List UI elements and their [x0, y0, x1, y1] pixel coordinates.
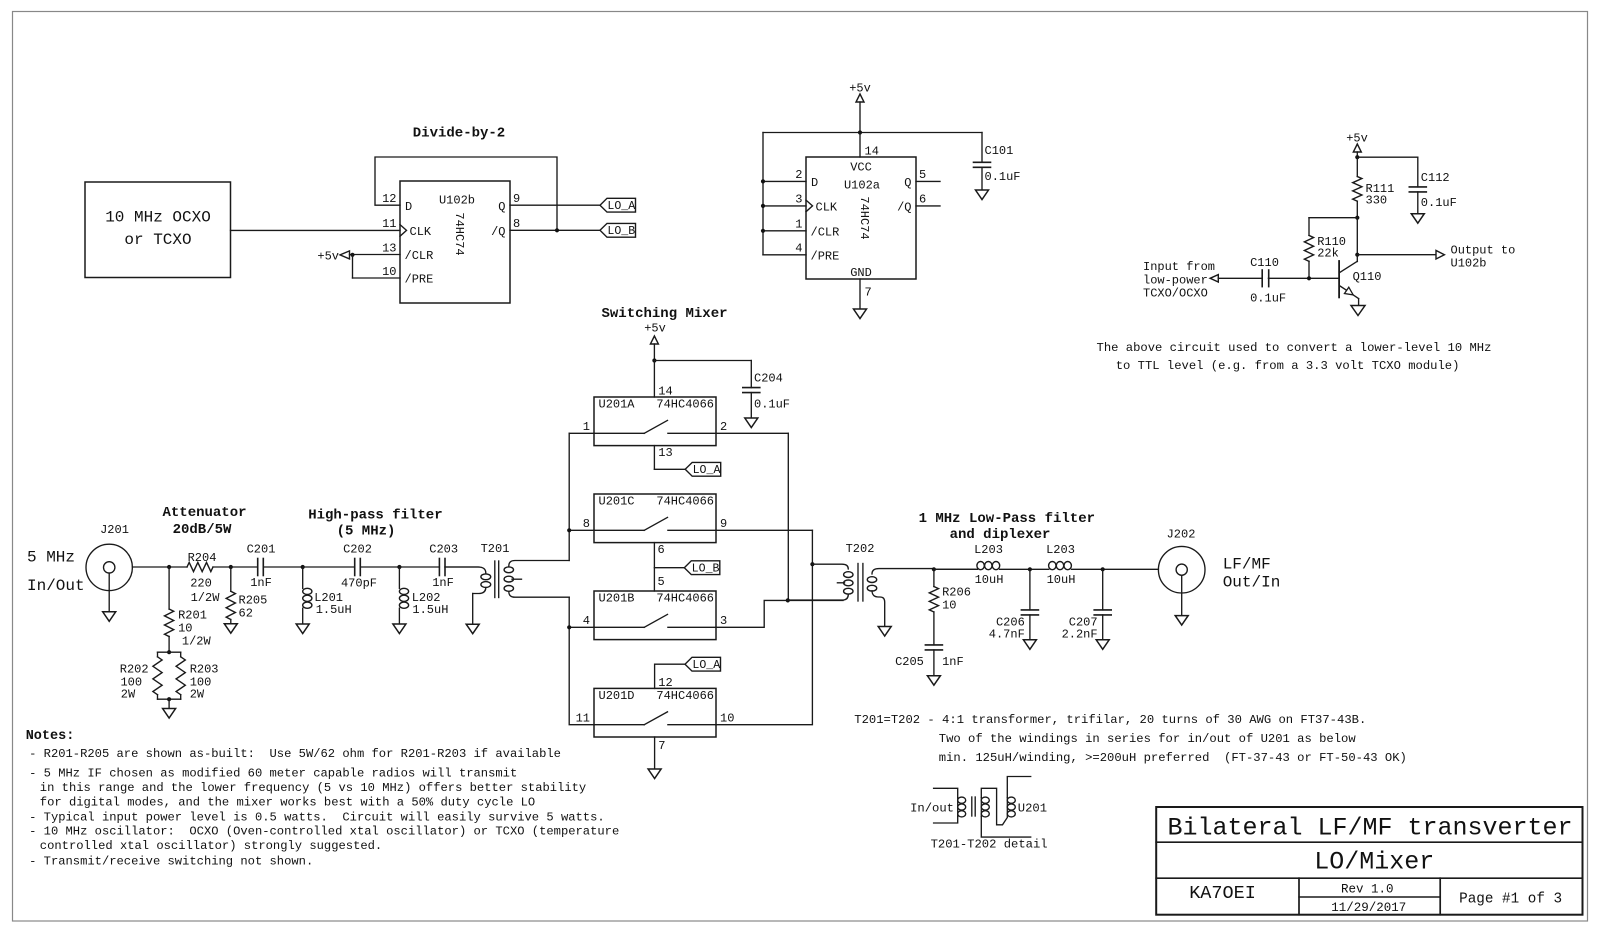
svg-text:12: 12	[658, 676, 672, 690]
svg-text:Q: Q	[498, 200, 505, 214]
svg-text:D: D	[405, 200, 412, 214]
svg-text:The above circuit used to conv: The above circuit used to convert a lowe…	[1097, 341, 1492, 355]
svg-text:J201: J201	[100, 523, 129, 537]
svg-text:+5v: +5v	[644, 322, 666, 336]
svg-text:J202: J202	[1167, 528, 1196, 542]
svg-text:L203: L203	[974, 543, 1003, 557]
svg-text:CLK: CLK	[816, 201, 838, 215]
svg-text:U102b: U102b	[1451, 257, 1487, 271]
svg-text:to TTL level (e.g. from a 3.3: to TTL level (e.g. from a 3.3 volt TCXO …	[1116, 359, 1460, 373]
svg-text:5: 5	[658, 575, 665, 589]
svg-text:10 MHz OCXO: 10 MHz OCXO	[105, 209, 211, 227]
svg-text:1nF: 1nF	[942, 655, 964, 669]
svg-text:20dB/5W: 20dB/5W	[173, 522, 232, 538]
svg-text:1.5uH: 1.5uH	[412, 603, 448, 617]
svg-text:U201A: U201A	[599, 398, 636, 412]
svg-text:Output to: Output to	[1451, 244, 1516, 258]
svg-text:Input from: Input from	[1143, 260, 1215, 274]
svg-text:Switching Mixer: Switching Mixer	[601, 306, 727, 322]
svg-text:D: D	[811, 176, 818, 190]
svg-text:U201D: U201D	[599, 689, 635, 703]
svg-text:Two of the windings in series: Two of the windings in series for in/out…	[939, 732, 1357, 746]
svg-text:2.2nF: 2.2nF	[1062, 628, 1098, 642]
svg-text:LO_A: LO_A	[607, 200, 635, 213]
svg-text:2W: 2W	[190, 688, 205, 702]
svg-text:low-power: low-power	[1143, 273, 1208, 287]
svg-text:T201-T202 detail: T201-T202 detail	[931, 838, 1048, 852]
svg-text:U102a: U102a	[844, 179, 880, 193]
svg-text:or TCXO: or TCXO	[124, 231, 191, 249]
svg-text:1nF: 1nF	[432, 576, 454, 590]
svg-text:KA7OEI: KA7OEI	[1189, 883, 1256, 904]
svg-text:8: 8	[583, 517, 590, 531]
svg-text:LF/MF: LF/MF	[1223, 555, 1271, 573]
svg-text:13: 13	[658, 446, 672, 460]
svg-text:LO/Mixer: LO/Mixer	[1314, 848, 1434, 877]
svg-text:4: 4	[583, 614, 590, 628]
svg-text:0.1uF: 0.1uF	[985, 170, 1021, 184]
svg-text:3: 3	[795, 193, 802, 207]
svg-text:C204: C204	[754, 372, 783, 386]
svg-text:11/29/2017: 11/29/2017	[1331, 901, 1406, 915]
svg-text:- Typical input power level is: - Typical input power level is 0.5 watts…	[29, 810, 605, 824]
svg-text:/Q: /Q	[897, 201, 911, 215]
svg-text:C112: C112	[1421, 171, 1450, 185]
svg-text:7: 7	[865, 286, 872, 300]
svg-text:0.1uF: 0.1uF	[1421, 196, 1457, 210]
svg-text:/CLR: /CLR	[405, 249, 434, 263]
svg-text:High-pass filter: High-pass filter	[308, 508, 442, 524]
svg-text:TCXO/OCXO: TCXO/OCXO	[1143, 287, 1208, 301]
svg-text:6: 6	[658, 543, 665, 557]
svg-text:C202: C202	[343, 543, 372, 557]
svg-text:1nF: 1nF	[250, 576, 272, 590]
svg-text:2: 2	[795, 168, 802, 182]
svg-text:In/out: In/out	[910, 802, 954, 816]
svg-text:for digital modes, and the mix: for digital modes, and the mixer works b…	[40, 795, 535, 809]
svg-text:4: 4	[795, 242, 802, 256]
svg-text:74HC4066: 74HC4066	[656, 689, 714, 703]
svg-text:7: 7	[658, 739, 665, 753]
svg-text:min. 125uH/winding, >=200uH pr: min. 125uH/winding, >=200uH preferred (F…	[939, 751, 1407, 765]
svg-text:220: 220	[190, 576, 212, 590]
svg-text:LO_B: LO_B	[607, 225, 635, 238]
svg-text:U201: U201	[1018, 802, 1047, 816]
svg-text:1: 1	[795, 218, 802, 232]
svg-text:GND: GND	[850, 266, 872, 280]
svg-text:10: 10	[720, 711, 734, 725]
svg-text:14: 14	[865, 145, 879, 159]
svg-text:Q110: Q110	[1353, 270, 1382, 284]
svg-text:T202: T202	[846, 542, 875, 556]
svg-text:1.5uH: 1.5uH	[316, 603, 352, 617]
svg-text:9: 9	[720, 517, 727, 531]
svg-text:2W: 2W	[121, 688, 136, 702]
svg-text:LO_A: LO_A	[692, 659, 720, 672]
svg-text:CLK: CLK	[410, 225, 432, 239]
svg-text:C203: C203	[429, 543, 458, 557]
svg-text:3: 3	[720, 614, 727, 628]
svg-text:- R201-R205 are shown as-built: - R201-R205 are shown as-built: Use 5W/6…	[29, 747, 561, 761]
svg-text:9: 9	[513, 192, 520, 206]
svg-text:C205: C205	[895, 655, 924, 669]
svg-text:14: 14	[658, 385, 672, 399]
svg-text:controlled xtal oscillator) st: controlled xtal oscillator) strongly sug…	[40, 839, 382, 853]
svg-text:C101: C101	[985, 144, 1014, 158]
svg-text:- 10 MHz oscillator: OCXO (Ov: - 10 MHz oscillator: OCXO (Oven-controll…	[29, 825, 619, 839]
svg-text:10uH: 10uH	[975, 573, 1004, 587]
svg-text:10: 10	[382, 265, 396, 279]
svg-text:74HC4066: 74HC4066	[656, 592, 714, 606]
svg-text:C110: C110	[1250, 256, 1279, 270]
svg-text:1: 1	[583, 420, 590, 434]
svg-text:1 MHz Low-Pass filter: 1 MHz Low-Pass filter	[919, 511, 1095, 527]
svg-text:Divide-by-2: Divide-by-2	[413, 126, 505, 142]
svg-text:74HC4066: 74HC4066	[656, 398, 714, 412]
svg-text:U201B: U201B	[599, 592, 635, 606]
svg-text:10uH: 10uH	[1047, 573, 1076, 587]
svg-text:(5 MHz): (5 MHz)	[337, 524, 396, 540]
svg-text:11: 11	[382, 217, 396, 231]
svg-text:LO_A: LO_A	[693, 464, 721, 477]
svg-text:4.7nF: 4.7nF	[989, 628, 1025, 642]
svg-text:/PRE: /PRE	[811, 249, 840, 263]
svg-text:470pF: 470pF	[341, 577, 377, 591]
svg-text:U201C: U201C	[599, 495, 635, 509]
svg-text:330: 330	[1366, 194, 1388, 208]
svg-text:8: 8	[513, 217, 520, 231]
svg-text:L203: L203	[1046, 543, 1075, 557]
svg-text:Out/In: Out/In	[1223, 574, 1281, 592]
svg-text:22k: 22k	[1317, 247, 1339, 261]
svg-text:T201=T202 - 4:1 transformer, t: T201=T202 - 4:1 transformer, trifilar, 2…	[854, 713, 1366, 727]
svg-text:Attenuator: Attenuator	[162, 505, 246, 521]
svg-text:62: 62	[239, 607, 253, 621]
svg-text:C201: C201	[247, 543, 276, 557]
svg-text:74HC4066: 74HC4066	[656, 495, 714, 509]
svg-text:5 MHz: 5 MHz	[27, 549, 75, 567]
svg-text:/Q: /Q	[491, 225, 505, 239]
svg-text:0.1uF: 0.1uF	[1250, 291, 1286, 305]
svg-text:R201: R201	[178, 608, 207, 622]
svg-text:1/2W: 1/2W	[191, 591, 221, 605]
svg-text:/CLR: /CLR	[811, 225, 840, 239]
svg-text:T201: T201	[481, 542, 510, 556]
svg-text:/PRE: /PRE	[405, 273, 434, 287]
svg-text:+5v: +5v	[317, 250, 339, 264]
svg-text:VCC: VCC	[850, 161, 872, 175]
svg-text:in this range and the lower fr: in this range and the lower frequency (5…	[40, 781, 586, 795]
svg-text:Page #1 of 3: Page #1 of 3	[1459, 891, 1562, 907]
svg-text:- 5 MHz IF chosen as modified: - 5 MHz IF chosen as modified 60 meter c…	[29, 766, 517, 780]
svg-text:74HC74: 74HC74	[452, 212, 466, 255]
svg-text:Q: Q	[904, 176, 911, 190]
svg-text:Notes:: Notes:	[26, 729, 75, 744]
svg-text:12: 12	[382, 192, 396, 206]
svg-text:5: 5	[919, 168, 926, 182]
svg-text:Bilateral LF/MF transverter: Bilateral LF/MF transverter	[1167, 814, 1572, 843]
svg-text:In/Out: In/Out	[27, 577, 85, 595]
svg-text:- Transmit/receive switching n: - Transmit/receive switching not shown.	[29, 855, 313, 869]
svg-text:LO_B: LO_B	[692, 562, 720, 575]
svg-text:13: 13	[382, 241, 396, 255]
svg-text:74HC74: 74HC74	[857, 196, 871, 239]
svg-text:1/2W: 1/2W	[182, 634, 212, 648]
svg-text:10: 10	[942, 598, 956, 612]
svg-text:U102b: U102b	[439, 194, 475, 208]
svg-text:6: 6	[919, 193, 926, 207]
svg-text:Rev 1.0: Rev 1.0	[1341, 883, 1394, 897]
svg-text:and diplexer: and diplexer	[950, 527, 1051, 543]
svg-text:R204: R204	[188, 551, 217, 565]
svg-text:R205: R205	[239, 594, 268, 608]
svg-text:0.1uF: 0.1uF	[754, 398, 790, 412]
svg-text:11: 11	[576, 711, 590, 725]
svg-text:2: 2	[720, 420, 727, 434]
